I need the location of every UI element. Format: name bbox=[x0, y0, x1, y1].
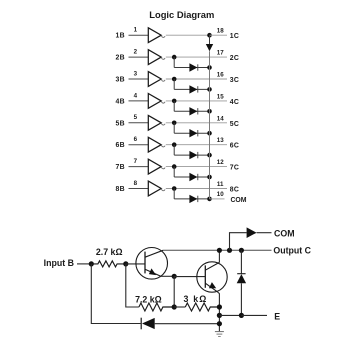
label: Output C bbox=[273, 246, 311, 256]
node: Q1 emitter / Q2 base junction bbox=[172, 274, 177, 279]
wire: Output C rail bbox=[163, 249, 272, 251]
node: diode CR2 cathode on COM rail bbox=[207, 65, 212, 70]
input label 8B bbox=[115, 186, 124, 193]
wire: input pin 6 to buffer A6 bbox=[129, 144, 149, 146]
buffer A6 bbox=[148, 137, 165, 152]
svg-text:3B: 3B bbox=[115, 77, 124, 84]
wire: buffer A2 output to pin 17 bbox=[166, 56, 227, 58]
wire: stub down from output 4C to diode CR4 bbox=[173, 101, 175, 111]
diode CR8 (output 8 clamp, cathode right) bbox=[189, 195, 197, 203]
title: Logic Diagram bbox=[149, 9, 214, 20]
diode CR2 (output 2 clamp, cathode right) bbox=[189, 63, 197, 71]
node: D3 anode on E lead bbox=[239, 313, 244, 318]
node: output 2C junction dot bbox=[172, 55, 177, 60]
svg-text:COM: COM bbox=[274, 228, 295, 238]
label: E bbox=[274, 311, 280, 321]
node: Q1 base junction bbox=[123, 261, 128, 266]
wire: Q1/Q2 collectors to Output C rail bbox=[218, 250, 220, 262]
node: diode D3 on rail bbox=[239, 248, 244, 253]
resistor R3 3 k&#937; label bbox=[183, 294, 207, 304]
svg-text:3C: 3C bbox=[230, 77, 239, 84]
wire: node down to resistor row bbox=[173, 276, 175, 307]
wire: base lead into Q1 bbox=[126, 263, 145, 265]
svg-text:6: 6 bbox=[134, 136, 138, 143]
node: R2/R3 junction bbox=[172, 304, 177, 309]
wire: buffer A6 output to pin 13 bbox=[166, 144, 227, 146]
wire: buffer A4 output to pin 15 bbox=[166, 100, 227, 102]
svg-text:1C: 1C bbox=[230, 33, 239, 40]
wire: buffer A8 output to pin 11 bbox=[166, 188, 227, 190]
diode CR7 (output 7 clamp, cathode right) bbox=[189, 173, 197, 181]
svg-text:7: 7 bbox=[134, 158, 138, 165]
svg-text:Logic Diagram: Logic Diagram bbox=[149, 9, 214, 20]
resistor R1 2.7 k&#937; bbox=[91, 261, 126, 267]
resistor R3 3 k&#937; bbox=[185, 303, 219, 311]
wire: Q1 emitter to node bbox=[161, 275, 174, 277]
wire: input pin 2 to buffer A2 bbox=[129, 56, 149, 58]
input label 2B bbox=[115, 55, 124, 62]
wire: stub down from output 2C to diode CR2 bbox=[173, 57, 175, 67]
node: diode CR4 cathode on COM rail bbox=[207, 109, 212, 114]
wire: diode CR4 branch to COM rail bbox=[174, 110, 209, 112]
pin label COM (pin 10) bbox=[230, 197, 246, 204]
pin 17 number bbox=[217, 50, 224, 57]
wire: COM branch up and right bbox=[230, 233, 247, 251]
svg-text:4: 4 bbox=[134, 92, 138, 99]
node: input B junction bbox=[89, 261, 94, 266]
svg-text:15: 15 bbox=[217, 93, 224, 100]
diode CR1 (output 1 clamp, vertical, cathode down) bbox=[206, 35, 213, 51]
wire: diode CR3 branch to COM rail bbox=[174, 88, 209, 90]
diode CR5 (output 5 clamp, cathode right) bbox=[189, 129, 197, 137]
input label 1B bbox=[115, 33, 124, 40]
buffer A2 bbox=[148, 50, 165, 65]
svg-text:8B: 8B bbox=[115, 186, 124, 193]
node: output 7C junction dot bbox=[172, 164, 177, 169]
pin 11 number bbox=[217, 181, 224, 188]
node: emitter rail / E lead junction bbox=[217, 313, 222, 318]
wire: diode CR8 branch to COM rail bbox=[174, 198, 209, 200]
svg-text:2C: 2C bbox=[230, 55, 239, 62]
output label 8C bbox=[230, 187, 239, 194]
buffer A7 bbox=[148, 159, 165, 174]
svg-text:5C: 5C bbox=[230, 121, 239, 128]
input label 5B bbox=[115, 120, 124, 127]
pin 6 number bbox=[134, 136, 138, 143]
wire: stub down from output 8C to diode CR8 bbox=[173, 189, 175, 199]
wire: stub down from output 5C to diode CR5 bbox=[173, 123, 175, 133]
input label 4B bbox=[115, 98, 124, 105]
buffer A5 bbox=[148, 115, 165, 130]
wire: buffer A5 output to pin 14 bbox=[166, 122, 227, 124]
diode D2 (to COM, cathode right) bbox=[247, 227, 257, 238]
node: output 3C junction dot bbox=[172, 77, 177, 82]
buffer A4 bbox=[148, 94, 165, 109]
svg-text:2.7 kΩ: 2.7 kΩ bbox=[96, 247, 123, 257]
svg-text:2B: 2B bbox=[115, 55, 124, 62]
svg-text:6C: 6C bbox=[230, 143, 239, 150]
pin 5 number bbox=[134, 114, 138, 121]
wire: stub down from output 3C to diode CR3 bbox=[173, 79, 175, 89]
pin 10 number bbox=[217, 191, 224, 198]
pin 7 number bbox=[134, 158, 138, 165]
svg-text:17: 17 bbox=[217, 50, 224, 57]
node: diode CR7 cathode on COM rail bbox=[207, 175, 212, 180]
wire: E lead bbox=[219, 314, 241, 316]
resistor R2 7.2 k&#937; label bbox=[135, 294, 162, 304]
node: output 6C junction dot bbox=[172, 142, 177, 147]
output label 6C bbox=[230, 143, 239, 150]
svg-text:12: 12 bbox=[217, 159, 224, 166]
pin 4 number bbox=[134, 92, 138, 99]
svg-text:6B: 6B bbox=[115, 142, 124, 149]
node: output 1C junction dot bbox=[207, 33, 212, 38]
wire: buffer A7 output to pin 12 bbox=[166, 166, 227, 168]
svg-text:8C: 8C bbox=[230, 187, 239, 194]
node: output 8C junction dot bbox=[172, 186, 177, 191]
node: diode CR8 cathode on COM rail bbox=[207, 197, 212, 202]
svg-text:10: 10 bbox=[217, 191, 224, 198]
buffer A1 bbox=[148, 28, 165, 43]
wire: input pin 8 to buffer A8 bbox=[129, 188, 149, 190]
wire: input pin 3 to buffer A3 bbox=[129, 78, 149, 80]
label: Input B bbox=[44, 258, 74, 268]
wire: diode CR5 branch to COM rail bbox=[174, 132, 209, 134]
svg-text:13: 13 bbox=[217, 137, 224, 144]
input label 7B bbox=[115, 164, 124, 171]
diode D3 (E to C clamp, cathode up) bbox=[237, 250, 246, 315]
svg-text:5: 5 bbox=[134, 114, 138, 121]
wire: diode CR6 branch to COM rail bbox=[174, 154, 209, 156]
label: COM bbox=[274, 228, 295, 238]
output label 3C bbox=[230, 77, 239, 84]
buffer A8 bbox=[148, 181, 165, 196]
pin 2 number bbox=[134, 49, 138, 56]
wire: Input B lead bbox=[77, 263, 91, 265]
wire: input pin 4 to buffer A4 bbox=[129, 100, 149, 102]
wire: R2 node to R3 bbox=[174, 306, 185, 308]
svg-text:14: 14 bbox=[217, 115, 224, 122]
output label 7C bbox=[230, 165, 239, 172]
transistor Q1 (NPN) bbox=[136, 247, 168, 279]
ground bbox=[215, 332, 224, 337]
output label 1C bbox=[230, 33, 239, 40]
node: emitter rail / resistor row junction bbox=[217, 304, 222, 309]
wire: node to Q2 base bbox=[174, 276, 205, 278]
svg-text:1: 1 bbox=[134, 27, 138, 34]
pin 18 number bbox=[217, 28, 224, 35]
node: diode CR5 cathode on COM rail bbox=[207, 131, 212, 136]
pin 3 number bbox=[134, 70, 138, 77]
wire: D1 anode to emitter rail bbox=[155, 323, 220, 325]
svg-text:7C: 7C bbox=[230, 165, 239, 172]
svg-text:3: 3 bbox=[134, 70, 138, 77]
output label 2C bbox=[230, 55, 239, 62]
svg-text:4B: 4B bbox=[115, 98, 124, 105]
wire: input pin 5 to buffer A5 bbox=[129, 122, 149, 124]
pin 16 number bbox=[217, 72, 224, 79]
input label 6B bbox=[115, 142, 124, 149]
wire: buffer A3 output to pin 16 bbox=[166, 78, 227, 80]
wire: diode CR7 branch to COM rail bbox=[174, 176, 209, 178]
diode CR6 (output 6 clamp, cathode right) bbox=[189, 151, 197, 159]
wire: Q1 base down to resistor row bbox=[126, 264, 139, 307]
resistor R2 7.2 k&#937; bbox=[139, 303, 174, 311]
pin 1 number bbox=[134, 27, 138, 34]
svg-text:2: 2 bbox=[134, 49, 138, 56]
diode CR4 (output 4 clamp, cathode right) bbox=[189, 107, 197, 115]
pin 15 number bbox=[217, 93, 224, 100]
wire: input pin 1 to buffer A1 bbox=[129, 34, 149, 36]
node: diode CR6 cathode on COM rail bbox=[207, 153, 212, 158]
wire: D2 cathode to COM label bbox=[257, 232, 272, 234]
transistor Q2 (NPN) bbox=[197, 262, 227, 292]
wire: diode CR2 branch to COM rail bbox=[174, 67, 209, 69]
svg-text:11: 11 bbox=[217, 181, 224, 188]
wire: stub down from output 6C to diode CR6 bbox=[173, 145, 175, 155]
svg-text:COM: COM bbox=[230, 197, 246, 204]
pin 8 number bbox=[134, 180, 138, 187]
wire: input return wire down and right bbox=[91, 264, 140, 324]
wire: pin 10 COM lead bbox=[210, 198, 225, 200]
svg-text:4C: 4C bbox=[230, 99, 239, 106]
node: Q2 collector on rail bbox=[217, 248, 222, 253]
wire: input pin 7 to buffer A7 bbox=[129, 166, 149, 168]
node: return wire / emitter rail junction bbox=[217, 321, 222, 326]
output label 4C bbox=[230, 99, 239, 106]
pin 12 number bbox=[217, 159, 224, 166]
diode D1 (input clamp, cathode left) bbox=[141, 318, 155, 330]
pin 14 number bbox=[217, 115, 224, 122]
svg-text:16: 16 bbox=[217, 72, 224, 79]
output label 5C bbox=[230, 121, 239, 128]
node: COM branch on rail bbox=[227, 248, 232, 253]
wire: stub down from output 7C to diode CR7 bbox=[173, 167, 175, 177]
wire: pin 18 lead bbox=[210, 34, 228, 36]
wire: Q2 emitter down bbox=[217, 292, 219, 332]
svg-text:18: 18 bbox=[217, 28, 224, 35]
node: diode CR3 cathode on COM rail bbox=[207, 87, 212, 92]
resistor R1 2.7 k&#937; label bbox=[96, 247, 123, 257]
svg-text:8: 8 bbox=[134, 180, 138, 187]
svg-text:1B: 1B bbox=[115, 33, 124, 40]
pin 13 number bbox=[217, 137, 224, 144]
svg-text:Output C: Output C bbox=[273, 246, 311, 256]
svg-text:5B: 5B bbox=[115, 120, 124, 127]
svg-text:E: E bbox=[274, 311, 280, 321]
wire: COM rail (pin 10) bbox=[209, 51, 211, 199]
input label 3B bbox=[115, 77, 124, 84]
node: output 4C junction dot bbox=[172, 99, 177, 104]
node: output 5C junction dot bbox=[172, 121, 177, 126]
buffer A3 bbox=[148, 72, 165, 87]
wire: buffer A1 output to COM rail junction bbox=[166, 34, 210, 36]
svg-text:Input B: Input B bbox=[44, 258, 74, 268]
diode CR3 (output 3 clamp, cathode right) bbox=[189, 85, 197, 93]
svg-text:7B: 7B bbox=[115, 164, 124, 171]
wire: E lead to label bbox=[241, 314, 267, 316]
